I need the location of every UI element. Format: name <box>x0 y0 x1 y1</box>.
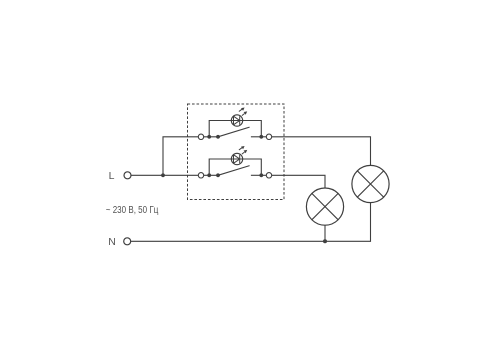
svg-text:L: L <box>109 170 115 182</box>
svg-text:N: N <box>108 236 116 248</box>
svg-text:~ 230 В, 50 Гц: ~ 230 В, 50 Гц <box>106 205 159 216</box>
